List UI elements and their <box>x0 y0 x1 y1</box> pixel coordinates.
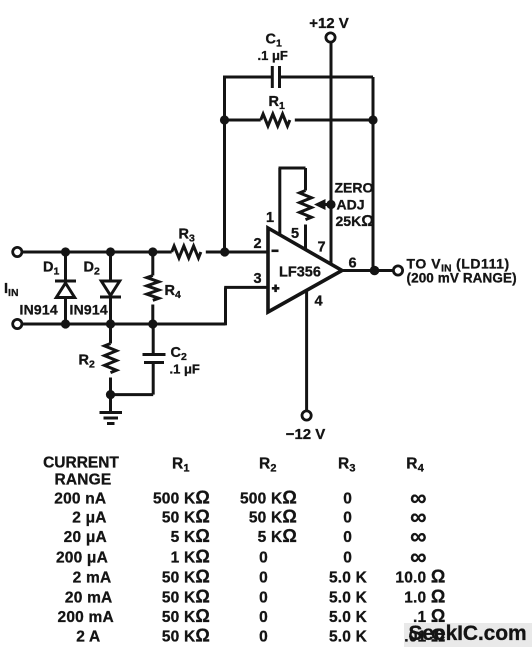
svg-text:50 KΩ: 50 KΩ <box>162 587 210 607</box>
wire feedback top left <box>223 76 271 79</box>
wire feedback left vertical <box>223 77 226 252</box>
svg-text:2: 2 <box>254 236 262 252</box>
svg-text:7: 7 <box>318 240 326 256</box>
svg-text:LF356: LF356 <box>279 265 321 281</box>
node top wire R4 <box>148 247 157 256</box>
wire feedback right vertical <box>372 77 375 271</box>
svg-text:5.0 K: 5.0 K <box>329 609 368 626</box>
wire pin 4 to -12V <box>305 290 308 411</box>
node feedback right <box>368 115 377 124</box>
svg-text:0: 0 <box>259 570 268 587</box>
svg-text:0: 0 <box>343 550 352 567</box>
label output <box>407 255 517 285</box>
svg-text:0: 0 <box>343 491 352 508</box>
node output <box>370 266 380 276</box>
label C2 value <box>170 345 200 377</box>
svg-text:500 KΩ: 500 KΩ <box>240 488 297 508</box>
svg-text:0: 0 <box>259 609 268 626</box>
wire input bottom <box>22 323 226 326</box>
svg-text:200 μA: 200 μA <box>56 550 108 567</box>
svg-text:ZERO: ZERO <box>335 180 374 196</box>
svg-text:5.0 K: 5.0 K <box>329 629 368 646</box>
wire +12V rail to pin 7 <box>330 43 333 265</box>
svg-text:4: 4 <box>315 294 323 310</box>
svg-text:R3: R3 <box>179 227 195 245</box>
node pin 2 junction <box>220 247 229 256</box>
svg-text:0: 0 <box>259 590 268 607</box>
label C1 value <box>258 32 288 64</box>
wire to pin 3 <box>224 287 268 325</box>
node feedback left <box>220 115 229 124</box>
svg-text:IN914: IN914 <box>70 301 108 317</box>
svg-text:R4: R4 <box>165 283 181 301</box>
svg-text:200 mA: 200 mA <box>58 609 114 626</box>
svg-text:2 μA: 2 μA <box>72 510 106 527</box>
wire input top to pin 2 <box>22 251 172 254</box>
svg-text:.1 μF: .1 μF <box>170 362 200 377</box>
diode D2 <box>100 252 121 324</box>
svg-text:IIN: IIN <box>4 281 19 299</box>
svg-text:IN914: IN914 <box>20 301 58 317</box>
capacitor C1 <box>272 66 279 88</box>
input terminal top <box>13 247 22 256</box>
svg-text:R4: R4 <box>406 456 424 475</box>
svg-text:5.0 K: 5.0 K <box>329 590 368 607</box>
svg-text:1: 1 <box>266 210 274 226</box>
watermark background band <box>404 623 532 647</box>
diode D1 <box>55 252 76 324</box>
svg-text:D2: D2 <box>84 260 100 278</box>
svg-text:50 KΩ: 50 KΩ <box>162 626 210 646</box>
svg-text:C1: C1 <box>266 32 282 50</box>
svg-text:D1: D1 <box>43 260 59 278</box>
svg-text:RANGE: RANGE <box>55 472 112 489</box>
svg-text:R1: R1 <box>172 456 190 475</box>
svg-text:5.0 K: 5.0 K <box>329 570 368 587</box>
input terminal bottom <box>13 319 22 328</box>
node bottom wire D1 <box>61 319 70 328</box>
svg-text:−12 V: −12 V <box>286 426 326 443</box>
svg-text:5 KΩ: 5 KΩ <box>171 526 210 546</box>
svg-text:0: 0 <box>343 529 352 546</box>
svg-text:ADJ: ADJ <box>337 197 365 213</box>
resistor R4 <box>147 252 159 324</box>
node bottom wire D2 <box>106 319 115 328</box>
resistor R3 <box>172 246 268 258</box>
svg-text:0: 0 <box>259 629 268 646</box>
table <box>43 455 445 646</box>
wire output <box>342 269 393 272</box>
wire R2 bottom to C2 bottom <box>111 393 154 396</box>
svg-text:50 KΩ: 50 KΩ <box>162 567 210 587</box>
svg-text:25KΩ: 25KΩ <box>336 213 375 230</box>
svg-text:1 KΩ: 1 KΩ <box>171 547 210 567</box>
svg-text:C2: C2 <box>171 345 187 363</box>
svg-text:R3: R3 <box>338 456 356 475</box>
svg-text:CURRENT: CURRENT <box>43 455 119 472</box>
svg-text:50 KΩ: 50 KΩ <box>162 606 210 626</box>
svg-text:5 KΩ: 5 KΩ <box>258 526 297 546</box>
svg-text:.1 μF: .1 μF <box>258 48 288 63</box>
node top wire D1 <box>61 247 70 256</box>
label ZERO ADJ 25K <box>335 180 375 231</box>
resistor R1 <box>225 114 374 126</box>
svg-text:R1: R1 <box>269 94 285 112</box>
node bottom wire R4 <box>148 319 157 328</box>
node wiper on +12V rail <box>326 200 335 209</box>
potentiometer zero adjust <box>279 168 312 250</box>
svg-text:20 mA: 20 mA <box>65 590 113 607</box>
+12V supply terminal <box>309 15 349 42</box>
svg-text:50 KΩ: 50 KΩ <box>162 507 210 527</box>
node ground junction <box>106 390 115 399</box>
svg-text:R2: R2 <box>79 353 95 371</box>
svg-text:10.0 Ω: 10.0 Ω <box>395 567 445 587</box>
svg-text:3: 3 <box>254 271 262 287</box>
svg-text:1.0 Ω: 1.0 Ω <box>404 587 445 607</box>
svg-text:∞: ∞ <box>410 544 427 570</box>
svg-text:0: 0 <box>343 510 352 527</box>
capacitor C2 <box>143 324 166 395</box>
svg-text:50 KΩ: 50 KΩ <box>249 507 297 527</box>
ground <box>100 395 123 424</box>
svg-text:(200 mV RANGE): (200 mV RANGE) <box>407 271 517 286</box>
wire feedback top right <box>281 76 374 79</box>
svg-text:20 μA: 20 μA <box>64 529 107 546</box>
resistor R2 <box>105 324 117 395</box>
svg-text:5: 5 <box>291 226 299 242</box>
-12V supply terminal <box>286 411 326 443</box>
svg-text:500 KΩ: 500 KΩ <box>153 488 210 508</box>
svg-text:200 nA: 200 nA <box>54 491 106 508</box>
node top wire D2 <box>106 247 115 256</box>
svg-text:+12 V: +12 V <box>309 15 349 32</box>
svg-text:2 A: 2 A <box>76 629 100 646</box>
svg-text:2 mA: 2 mA <box>73 570 112 587</box>
wiper arrow <box>314 199 331 210</box>
svg-text:SeekIC.com: SeekIC.com <box>409 622 527 645</box>
svg-text:R2: R2 <box>259 456 277 475</box>
output terminal <box>393 266 402 275</box>
svg-text:0: 0 <box>259 550 268 567</box>
op-amp U1 LF356 <box>268 228 342 312</box>
